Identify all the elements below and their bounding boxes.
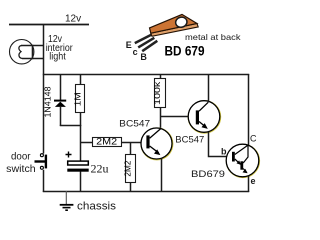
wire collector Q1 to base Q2 link (160, 116, 196, 118)
wire left rail lower (switch to ground rail) (43, 170, 45, 192)
leg E (135, 34, 152, 43)
svg-text:c: c (133, 47, 138, 57)
svg-text:b: b (221, 146, 227, 156)
svg-text:BC547: BC547 (175, 135, 204, 145)
resistor R3 2M2 vertical (126, 143, 136, 193)
svg-text:chassis: chassis (77, 201, 117, 213)
transistor Q1 BC547 left (141, 128, 172, 159)
package side face front (151, 24, 198, 37)
svg-text:BC547: BC547 (119, 118, 150, 128)
svg-text:BD 679: BD 679 (165, 43, 205, 59)
svg-text:BD679: BD679 (191, 169, 225, 180)
svg-text:1N4148: 1N4148 (43, 86, 53, 117)
wire diode-1M bottom join (60, 125, 81, 127)
resistor R2 2M2 horizontal (80, 138, 147, 147)
wire junction column down to capacitor (80, 125, 82, 161)
package top face (150, 14, 198, 33)
wire 12v top rail (9, 24, 89, 26)
label 12v interior light (46, 34, 74, 63)
diode D1 1N4148 (54, 74, 66, 126)
svg-text:metal at back: metal at back (185, 32, 241, 42)
switch S1 door switch (35, 154, 46, 170)
package mounting hole (175, 16, 189, 29)
wire emitter Q3 down to ground rail (248, 176, 250, 192)
wire main horizontal positive rail (43, 74, 249, 76)
lamp LP1 12v interior light (10, 40, 45, 64)
svg-text:100k: 100k (152, 81, 162, 105)
transistor Q2 BC547 right (188, 101, 220, 133)
svg-text:E: E (126, 40, 132, 50)
svg-text:door: door (11, 152, 31, 163)
BD679 package drawing (TO-126) (135, 14, 198, 51)
capacitor C1 22u electrolytic (66, 152, 89, 193)
svg-text:1M: 1M (72, 92, 82, 106)
svg-text:B: B (140, 52, 147, 62)
wire ground rail bottom (43, 191, 249, 193)
resistor R4 100k (155, 74, 166, 129)
svg-text:switch: switch (6, 164, 36, 175)
svg-text:12v: 12v (65, 14, 81, 25)
transistor Q3 BD679 darlington (226, 144, 259, 177)
wire collector Q2 up to rail (208, 74, 210, 102)
svg-text:22u: 22u (91, 162, 109, 176)
svg-text:light: light (49, 52, 66, 63)
svg-text:2M2: 2M2 (96, 137, 117, 147)
wire right rail collector Q3 (248, 74, 250, 158)
wire emitter Q2 down and right to base Q3 (209, 132, 234, 157)
svg-text:e: e (251, 176, 256, 186)
svg-text:2M2: 2M2 (122, 160, 132, 176)
svg-text:C: C (250, 134, 257, 144)
wire emitter Q1 down to ground rail (161, 158, 163, 192)
ground chassis symbol (60, 191, 74, 210)
wire left rail upper (12v rail down to switch) (43, 25, 45, 154)
resistor R1 1M (76, 74, 85, 126)
leg B (142, 41, 157, 51)
label door switch (6, 152, 36, 176)
leg C (138, 38, 154, 48)
